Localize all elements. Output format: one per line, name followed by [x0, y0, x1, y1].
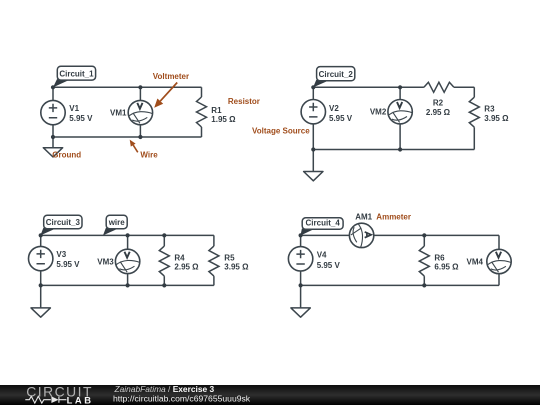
- svg-text:V4: V4: [317, 250, 327, 259]
- svg-text:VM4: VM4: [467, 257, 484, 266]
- svg-text:AM1: AM1: [355, 213, 372, 222]
- svg-text:Ammeter: Ammeter: [376, 213, 411, 222]
- svg-text:2.95 Ω: 2.95 Ω: [174, 263, 199, 272]
- svg-text:R5: R5: [224, 253, 235, 262]
- svg-text:1.95 Ω: 1.95 Ω: [211, 115, 236, 124]
- svg-text:Circuit_3: Circuit_3: [46, 218, 81, 227]
- svg-text:wire: wire: [108, 218, 126, 227]
- svg-text:VM3: VM3: [97, 257, 114, 266]
- svg-text:R4: R4: [174, 253, 185, 262]
- svg-text:R2: R2: [433, 99, 444, 108]
- svg-text:Circuit_2: Circuit_2: [319, 70, 354, 79]
- svg-text:V2: V2: [329, 104, 339, 113]
- svg-text:R1: R1: [211, 106, 222, 115]
- svg-text:VM1: VM1: [110, 109, 127, 118]
- svg-text:3.95 Ω: 3.95 Ω: [224, 263, 249, 272]
- svg-text:LAB: LAB: [67, 395, 94, 405]
- svg-text:R3: R3: [484, 105, 495, 114]
- svg-text:5.95 V: 5.95 V: [329, 114, 353, 123]
- svg-text:R6: R6: [434, 253, 445, 262]
- svg-text:5.95 V: 5.95 V: [56, 260, 80, 269]
- svg-text:6.95 Ω: 6.95 Ω: [434, 263, 459, 272]
- svg-text:Ground: Ground: [52, 151, 81, 160]
- svg-text:5.95 V: 5.95 V: [69, 114, 93, 123]
- svg-text:http://circuitlab.com/c697655u: http://circuitlab.com/c697655uuu9sk: [113, 393, 251, 403]
- svg-text:Circuit_4: Circuit_4: [306, 219, 341, 228]
- svg-text:VM2: VM2: [370, 108, 387, 117]
- svg-text:3.95 Ω: 3.95 Ω: [484, 114, 509, 123]
- svg-text:2.95 Ω: 2.95 Ω: [426, 108, 451, 117]
- svg-text:V1: V1: [69, 104, 79, 113]
- svg-text:Wire: Wire: [140, 151, 158, 160]
- svg-text:Circuit_1: Circuit_1: [59, 70, 94, 79]
- svg-text:V3: V3: [56, 250, 66, 259]
- svg-text:Resistor: Resistor: [228, 97, 260, 106]
- svg-text:5.95 V: 5.95 V: [317, 261, 341, 270]
- svg-text:Voltmeter: Voltmeter: [153, 72, 189, 81]
- svg-text:Voltage Source: Voltage Source: [252, 127, 310, 136]
